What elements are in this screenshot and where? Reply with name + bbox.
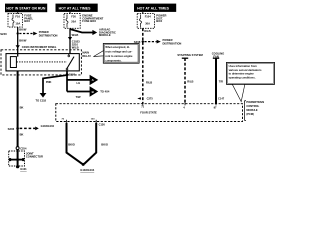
svg-text:BK/W: BK/W	[19, 39, 27, 43]
svg-text:F30: F30	[71, 15, 76, 19]
wire BK/O ground (pin 76)	[67, 123, 83, 164]
node HOT IN START OR RUN header	[5, 4, 47, 13]
svg-text:G103/G104: G103/G104	[80, 168, 94, 172]
svg-text:T/R: T/R	[219, 79, 223, 83]
svg-text:F104: F104	[145, 15, 152, 19]
wire BK/W from fuse F16 down to relay coil	[17, 27, 19, 56]
node MAIN RELAY label	[82, 51, 91, 58]
wire from header 3 to fuse box 3	[142, 12, 144, 14]
svg-text:LG: LG	[77, 81, 81, 85]
fuse F104 in power distribution box (dashed box)	[137, 14, 154, 29]
svg-text:F16: F16	[15, 14, 20, 18]
PCM powertrain control module (dashed box)	[56, 102, 243, 121]
svg-text:S206: S206	[8, 127, 15, 131]
svg-text:R/LB: R/LB	[144, 29, 150, 33]
coil ground wire BK (thick) down left side	[17, 71, 19, 167]
relay internal dashed link	[17, 61, 67, 63]
svg-text:components.: components.	[105, 59, 121, 63]
svg-text:RELAY: RELAY	[82, 54, 91, 58]
svg-text:MODULE: MODULE	[99, 33, 111, 37]
relay contact	[68, 54, 70, 56]
svg-text:STARTING SYSTEM: STARTING SYSTEM	[177, 53, 203, 57]
wire BK/O ground (pin 103)	[84, 123, 108, 164]
fuse F16 in I/P fuse panel (dashed box)	[8, 14, 23, 28]
callout note: relay function	[93, 44, 139, 64]
power distribution box (dashed outline around relay)	[1, 50, 81, 75]
node power distribution box label	[156, 14, 166, 24]
svg-text:FOUR STATE: FOUR STATE	[140, 110, 157, 114]
wire from header 1 to fuse box 1	[17, 12, 19, 14]
svg-text:HOT AT ALL TIMES: HOT AT ALL TIMES	[137, 7, 170, 11]
connector C2023 (in-line connector symbol on wire)	[16, 45, 57, 49]
svg-text:operating conditions.: operating conditions.	[229, 75, 256, 79]
node POWERTRAIN CONTROL MODULE label with bracket	[244, 100, 264, 120]
pin 76 tick on PCM bottom	[62, 118, 67, 122]
svg-text:CONTROL: CONTROL	[246, 104, 259, 108]
svg-text:TO C118: TO C118	[36, 99, 47, 103]
svg-text:TO 4X4: TO 4X4	[100, 89, 110, 93]
node COOLING FAN feed	[212, 51, 225, 109]
svg-text:R/LB: R/LB	[146, 80, 152, 84]
svg-text:CONNECTOR: CONNECTOR	[26, 155, 43, 159]
splice S240 with reference arrow to power distribution	[0, 30, 57, 38]
svg-text:POWER: POWER	[163, 38, 173, 42]
svg-text:W/LB: W/LB	[72, 33, 79, 37]
svg-text:BK/O: BK/O	[68, 142, 75, 146]
relay coil	[10, 57, 16, 68]
svg-text:DISTRIBUTION: DISTRIBUTION	[163, 42, 182, 46]
svg-text:S126: S126	[69, 72, 76, 76]
wire branch PNK to C118 (off-page triangle)	[36, 75, 67, 102]
connector C275 at PCM	[137, 97, 153, 101]
svg-text:POWERTRAIN: POWERTRAIN	[246, 100, 264, 104]
wire Y/LB from fuse F104 down to PCM (dashed)	[142, 28, 144, 103]
svg-text:HOT AT ALL TIMES: HOT AT ALL TIMES	[59, 7, 92, 11]
ground G101	[16, 165, 27, 171]
svg-text:rent to various engine: rent to various engine	[105, 54, 133, 58]
svg-text:30A: 30A	[145, 21, 150, 25]
svg-text:C275: C275	[147, 97, 154, 101]
joint connector (dashed box with bus bar)	[9, 151, 43, 166]
connector C254 (ring connector on ground wire)	[16, 147, 27, 151]
svg-text:BK: BK	[20, 132, 24, 136]
svg-text:C254: C254	[20, 147, 27, 151]
svg-text:various sensors/actuators: various sensors/actuators	[229, 68, 262, 72]
svg-text:G101: G101	[20, 167, 27, 171]
pin 103 tick on PCM bottom	[91, 118, 96, 122]
callout note: PCM function	[227, 62, 275, 101]
wire from header 2 to fuse box 2	[69, 12, 71, 14]
svg-text:10A: 10A	[15, 21, 20, 25]
node HOT AT ALL TIMES header (left)	[56, 4, 98, 12]
svg-text:C126: C126	[99, 122, 106, 126]
splice S206 with dashed reference to G103/G104	[8, 124, 55, 131]
svg-text:C2023 INSTRUMENT PANEL: C2023 INSTRUMENT PANEL	[22, 45, 57, 49]
wire W/LB from fuse F30 down to relay	[69, 28, 71, 53]
relay MAIN RELAY (solid box)	[6, 54, 79, 71]
connector symbol on W/LB wire	[68, 37, 72, 40]
svg-text:BK/O: BK/O	[101, 142, 108, 146]
svg-text:C147: C147	[218, 97, 225, 101]
node HOT AT ALL TIMES header (right)	[134, 4, 176, 12]
node fuse panel label	[24, 14, 33, 24]
svg-text:20A: 20A	[71, 19, 76, 23]
svg-text:BOX: BOX	[24, 19, 30, 23]
wire branch to air bag diagnostic module	[70, 28, 116, 38]
fuse F30 in engine compartment fuse box (dashed box)	[64, 14, 80, 29]
svg-text:to determine engine: to determine engine	[229, 72, 255, 76]
wire branch B (T/W) with arrow to 4X4	[67, 86, 110, 99]
svg-text:S240: S240	[0, 32, 7, 36]
svg-text:Uses information from: Uses information from	[229, 64, 258, 68]
svg-text:BK: BK	[20, 106, 24, 110]
svg-text:HOT IN START OR RUN: HOT IN START OR RUN	[6, 7, 45, 11]
svg-text:BK/W: BK/W	[19, 27, 27, 31]
svg-text:T/W: T/W	[76, 95, 81, 99]
wire branch A (LG) with arrow	[67, 75, 98, 86]
svg-text:S208: S208	[134, 40, 141, 44]
svg-text:R/LB: R/LB	[187, 79, 193, 83]
svg-text:FUSE BOX: FUSE BOX	[82, 19, 96, 23]
node STARTING SYSTEM feed	[177, 53, 203, 109]
svg-text:(PCM): (PCM)	[246, 112, 254, 116]
splice S208 with reference arrow to power distribution	[134, 38, 182, 45]
svg-text:PNK: PNK	[46, 80, 52, 84]
svg-text:MODULE: MODULE	[246, 108, 258, 112]
relay output node S126	[66, 71, 76, 92]
svg-text:When energized, di-: When energized, di-	[105, 45, 130, 49]
ground G103/G104 (PCM grounds)	[80, 163, 94, 172]
svg-text:G103/G104: G103/G104	[41, 124, 55, 128]
svg-text:POWER: POWER	[39, 30, 49, 34]
node engine compartment fuse box label	[82, 14, 103, 24]
svg-text:BOX: BOX	[156, 19, 162, 23]
svg-text:rects voltage and cur-: rects voltage and cur-	[105, 50, 132, 54]
svg-text:DISTRIBUTION: DISTRIBUTION	[39, 33, 58, 37]
svg-text:W/LB: W/LB	[72, 45, 79, 49]
